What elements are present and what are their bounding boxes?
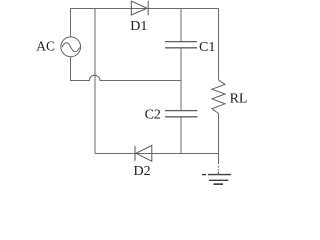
wire capacitor branch lower (C2 to bottom) xyxy=(180,117,182,154)
diode D1 triangle xyxy=(131,1,147,15)
svg-text:C1: C1 xyxy=(199,40,215,55)
capacitor C1 top plate xyxy=(165,41,197,43)
wire right vertical upper (to RL) xyxy=(218,9,220,81)
capacitor C2 bottom plate xyxy=(165,116,198,118)
capacitor C1 bottom plate xyxy=(165,47,197,49)
resistor RL zigzag xyxy=(212,80,225,114)
wire right vertical lower (RL to ground) xyxy=(218,114,220,165)
wire left vertical lower (AC bottom lead) xyxy=(70,57,72,81)
svg-text:C2: C2 xyxy=(145,107,161,122)
ground bar 2 xyxy=(209,179,228,181)
wire second vertical (top node to bottom node) xyxy=(94,9,96,154)
svg-text:RL: RL xyxy=(230,92,248,107)
wire capacitor branch middle (C1 to C2) xyxy=(180,48,182,111)
wire top (node between AC+, D1 anode) xyxy=(70,8,219,10)
ground bar 3 xyxy=(214,183,224,185)
diode D1 cathode bar xyxy=(147,1,149,16)
AC source sine symbol xyxy=(62,43,80,52)
svg-text:AC: AC xyxy=(36,39,55,54)
ground dotted lead xyxy=(218,166,220,174)
wire middle horizontal with hop over vertical xyxy=(70,75,181,80)
svg-text:D2: D2 xyxy=(134,164,151,179)
AC source V1 circle xyxy=(61,37,81,57)
capacitor C2 top plate xyxy=(165,110,198,112)
ground bar 1 xyxy=(202,174,231,176)
wire capacitor branch upper (top to C1) xyxy=(180,9,182,42)
wire left vertical upper (AC top lead) xyxy=(70,9,72,38)
diode D2 cathode bar xyxy=(134,146,136,161)
svg-text:D1: D1 xyxy=(130,19,147,34)
wire bottom horizontal xyxy=(95,153,219,155)
diode D2 triangle (pointing left) xyxy=(136,145,152,161)
